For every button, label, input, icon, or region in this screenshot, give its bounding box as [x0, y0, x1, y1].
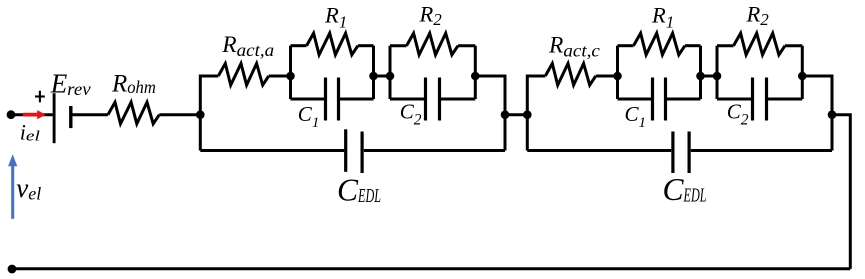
label + polarity — [35, 95, 45, 97]
capacitor C1 (cathode) plates — [651, 78, 654, 121]
wire: link section1 to section2 — [505, 113, 527, 116]
wire: combo2 right rail — [474, 46, 477, 99]
resistor R_ohm — [108, 102, 159, 124]
svg-text:Erev: Erev — [50, 69, 91, 100]
node: combo2 out — [471, 72, 480, 81]
svg-text:C2: C2 — [400, 99, 422, 128]
wire: R_act,c to junction — [596, 75, 618, 78]
svg-text:C2: C2 — [727, 99, 749, 128]
wire: combo2 out to section1 right rail — [475, 76, 505, 151]
capacitor C2 (cathode) plates — [751, 78, 754, 121]
current arrow i_el (red) — [23, 110, 46, 119]
wire: combo1 top lead right — [358, 44, 374, 47]
svg-text:CEDL: CEDL — [337, 172, 381, 207]
svg-text:Ract,a: Ract,a — [221, 32, 274, 60]
wire: combo4 top lead right — [785, 44, 802, 47]
wire: combo3 top lead left — [618, 44, 634, 47]
wire: combo3 to combo4 — [701, 75, 718, 78]
wire: battery to R_ohm — [71, 113, 108, 116]
wire: combo4 right rail — [801, 46, 804, 99]
capacitor C1 (anode) plates — [324, 78, 327, 121]
wire: combo1 top lead left — [291, 44, 307, 47]
svg-text:R2: R2 — [419, 2, 443, 30]
wire: section2 left rail — [527, 76, 545, 151]
wire: combo3 bottom lead right — [667, 98, 701, 101]
wire: combo1 bottom lead left — [291, 98, 325, 101]
resistor R1 (anode) — [307, 33, 358, 55]
wire: section2 bottom rail left — [527, 149, 671, 152]
wire: section1 left rail — [200, 76, 218, 151]
wire: combo2 top lead right — [458, 44, 475, 47]
wire: combo1 right rail — [372, 46, 375, 99]
resistor R2 (cathode) — [734, 33, 786, 55]
wire: combo3 top lead right — [685, 44, 701, 47]
wire: R_ohm to node — [159, 113, 200, 116]
wire: combo2 left rail — [389, 46, 392, 99]
wire: bottom return — [12, 267, 850, 270]
wire: combo2 bottom lead right — [441, 98, 475, 101]
node: combo2 in — [386, 72, 395, 81]
svg-text:C1: C1 — [298, 102, 320, 131]
voltage arrow v_el (blue) — [8, 154, 17, 219]
wire: combo3 bottom lead left — [618, 98, 652, 101]
node: junction C1 — [613, 72, 622, 81]
battery U: E_rev long plate — [53, 93, 56, 143]
wire: combo1 left rail — [289, 46, 292, 99]
wire: combo2 bottom lead left — [390, 98, 424, 101]
wire: combo4 top lead left — [717, 44, 734, 47]
wire: terminal to battery — [11, 113, 53, 116]
wire: R_act,a to junction — [269, 75, 291, 78]
capacitor C_EDL (cathode) plates — [671, 132, 674, 174]
resistor R_act,a — [218, 64, 268, 86]
wire: section2 bottom rail right — [691, 149, 832, 152]
node: combo1 out — [369, 72, 378, 81]
wire: combo3 left rail — [616, 46, 619, 99]
wire: combo2 top lead left — [390, 44, 407, 47]
wire: combo4 bottom lead right — [768, 98, 802, 101]
battery U: E_rev short plate — [69, 106, 72, 128]
wire: combo3 right rail — [699, 46, 702, 99]
wire: combo1 bottom lead right — [340, 98, 374, 101]
resistor R1 (cathode) — [634, 33, 685, 55]
node: bottom-left terminal — [8, 265, 17, 274]
wire: combo4 left rail — [716, 46, 719, 99]
node: section2 input — [523, 110, 532, 119]
svg-text:vel: vel — [16, 173, 41, 204]
svg-text:Ract,c: Ract,c — [548, 33, 600, 61]
capacitor C_EDL (anode) plates — [344, 129, 347, 172]
resistor R2 (anode) — [407, 33, 459, 55]
svg-text:R1: R1 — [324, 2, 347, 31]
node: combo4 out — [798, 72, 807, 81]
wire: combo4 out to section2 right rail — [802, 76, 832, 151]
svg-text:Rohm: Rohm — [111, 71, 156, 98]
capacitor C2 (anode) plates — [424, 78, 427, 121]
wire: section1 bottom rail left — [200, 149, 344, 152]
node: section2 output — [828, 110, 837, 119]
svg-text:R1: R1 — [651, 2, 674, 31]
wire: section1 bottom rail right — [364, 149, 505, 152]
resistor R_act,c — [545, 64, 595, 86]
node: section1 output — [501, 110, 510, 119]
svg-text:CEDL: CEDL — [663, 172, 707, 207]
node: combo3 out — [696, 72, 705, 81]
svg-text:C1: C1 — [625, 102, 647, 131]
svg-text:R2: R2 — [746, 2, 770, 30]
wire: combo1 to combo2 — [374, 75, 391, 78]
node: junction A1 — [286, 72, 295, 81]
node: combo4 in — [713, 72, 722, 81]
node: top-left terminal — [7, 110, 16, 119]
node: section 1 input — [196, 110, 205, 119]
svg-text:iel: iel — [20, 120, 40, 145]
wire: combo4 bottom lead left — [717, 98, 751, 101]
wire: output to right edge and down — [832, 115, 850, 269]
